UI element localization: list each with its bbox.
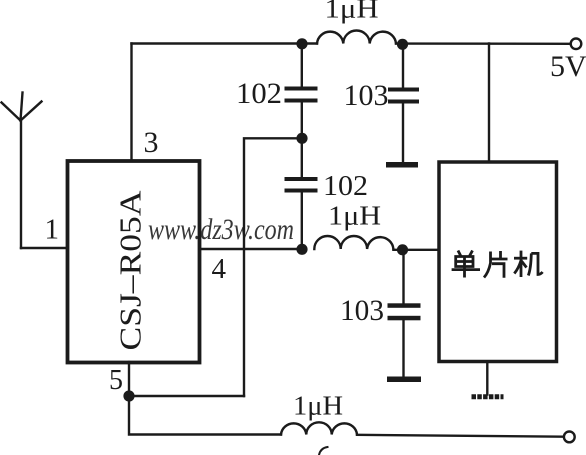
svg-text:5: 5 <box>109 365 123 396</box>
svg-text:1μH: 1μH <box>325 0 379 24</box>
IC U1 CSJ-R05A box <box>68 161 200 363</box>
wire MCU ground <box>486 362 488 395</box>
wire pin1 antenna to IC <box>21 247 67 249</box>
capacitor C3 103 (top right) <box>388 44 419 162</box>
svg-text:1μH: 1μH <box>293 391 343 421</box>
node junction dot pin5 <box>123 390 134 401</box>
node junction dot between C1 and C2 <box>296 133 307 144</box>
svg-text:5V: 5V <box>550 50 586 83</box>
node junction dot L2 right <box>397 244 408 255</box>
svg-text:1μH: 1μH <box>328 201 381 231</box>
capacitor C2 102 (middle) <box>285 138 318 249</box>
svg-text:103: 103 <box>344 79 389 112</box>
wire pin5 vertical <box>128 362 130 396</box>
MCU box <box>439 162 557 362</box>
terminal 5V open circle <box>571 39 582 50</box>
svg-text:102: 102 <box>236 77 282 110</box>
inductor L3 1uH bottom <box>281 422 357 434</box>
svg-text:3: 3 <box>144 126 159 159</box>
capacitor C1 102 (top) <box>285 44 318 138</box>
inductor L1 1uH top <box>317 30 396 43</box>
wire top rail left <box>132 42 318 44</box>
stray mark (cropped caption) <box>319 447 328 455</box>
node junction dot top-right <box>397 39 408 50</box>
ground bar of C4 <box>387 377 421 383</box>
ground symbol MCU <box>472 394 504 399</box>
wire L2 to MCU left <box>393 249 438 251</box>
wire 5V rail drop to MCU top <box>488 44 490 162</box>
wire pin4 <box>200 248 302 250</box>
MCU label 单片机 (drawn glyphs) <box>452 251 543 278</box>
ground bar of C3 <box>386 162 418 168</box>
terminal open circle bottom right <box>564 432 575 443</box>
svg-text:www.dz3w.com: www.dz3w.com <box>148 213 294 246</box>
svg-text:4: 4 <box>212 253 227 285</box>
wire top rail right to 5V terminal <box>396 42 571 45</box>
svg-text:102: 102 <box>323 170 368 202</box>
wire pin5 to branch <box>129 395 244 397</box>
node junction dot top-left <box>296 38 307 49</box>
svg-text:103: 103 <box>340 294 384 327</box>
wire bottom rail right to terminal <box>357 435 564 437</box>
node junction dot pin4 net <box>296 244 307 255</box>
wire bottom rail left <box>129 396 281 435</box>
svg-text:1: 1 <box>45 214 60 246</box>
wire branch from node to pin5 net <box>244 138 302 396</box>
capacitor C4 103 (bottom right) <box>388 250 421 377</box>
wire pin3 vertical <box>130 44 132 161</box>
svg-text:CSJ–R05A: CSJ–R05A <box>113 190 148 351</box>
inductor L2 1uH middle <box>314 236 393 249</box>
antenna <box>2 93 42 249</box>
